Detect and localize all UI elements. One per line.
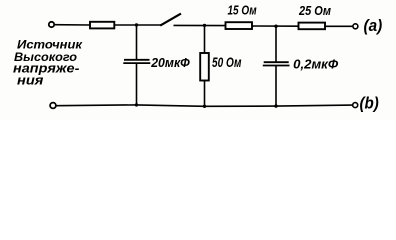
svg-text:50 Ом: 50 Ом [212, 55, 241, 70]
svg-text:25 Ом: 25 Ом [298, 3, 331, 18]
svg-text:15 Ом: 15 Ом [228, 3, 257, 18]
svg-text:20мкФ: 20мкФ [150, 55, 190, 70]
svg-text:0,2мкФ: 0,2мкФ [293, 57, 338, 71]
svg-text:(а): (а) [364, 17, 383, 35]
svg-text:(b): (b) [360, 95, 380, 113]
svg-text:ния: ния [17, 74, 44, 88]
